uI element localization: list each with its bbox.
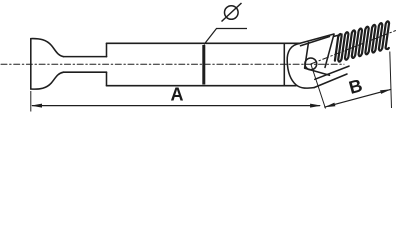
socket block inner top edge <box>301 37 330 46</box>
pin circle <box>305 58 317 70</box>
flare bell top contour <box>31 39 64 57</box>
diameter symbol slash <box>222 3 242 22</box>
svg-text:B: B <box>347 75 365 98</box>
neck top line <box>64 56 107 58</box>
arrowhead A right <box>310 104 321 108</box>
arrowhead A left <box>31 104 42 108</box>
socket block bottom edge <box>305 68 330 75</box>
socket block top edge <box>300 34 334 43</box>
eye lower collar line <box>314 74 347 88</box>
step face upper <box>106 43 108 56</box>
socket block left edge <box>305 43 309 69</box>
diameter leader line <box>204 29 247 45</box>
arrowhead B left <box>324 103 335 108</box>
threaded stud coil <box>335 21 389 61</box>
tilted centerline of threaded stud <box>311 31 396 64</box>
flare bell bottom contour <box>31 72 64 89</box>
cylinder bottom line <box>107 85 297 87</box>
arrowhead B right <box>380 89 391 94</box>
step face lower <box>106 72 108 86</box>
svg-text:A: A <box>171 85 184 105</box>
flare left face <box>30 39 32 89</box>
shank top edge <box>334 34 342 36</box>
cylinder top line <box>107 42 301 44</box>
extension line left of A <box>30 91 32 112</box>
eye outer contour <box>287 43 314 88</box>
extension line right of B <box>390 52 392 109</box>
dimension line A <box>32 105 320 107</box>
socket block right edge <box>325 34 334 67</box>
diameter tick mark <box>202 45 205 85</box>
cylinder end joint line <box>283 43 285 85</box>
extension line from pin <box>311 65 326 109</box>
dimension line B <box>324 89 391 107</box>
neck bottom line <box>64 71 107 73</box>
main horizontal centerline <box>1 63 344 65</box>
collar upper line <box>315 66 349 79</box>
diameter symbol circle <box>225 6 239 20</box>
